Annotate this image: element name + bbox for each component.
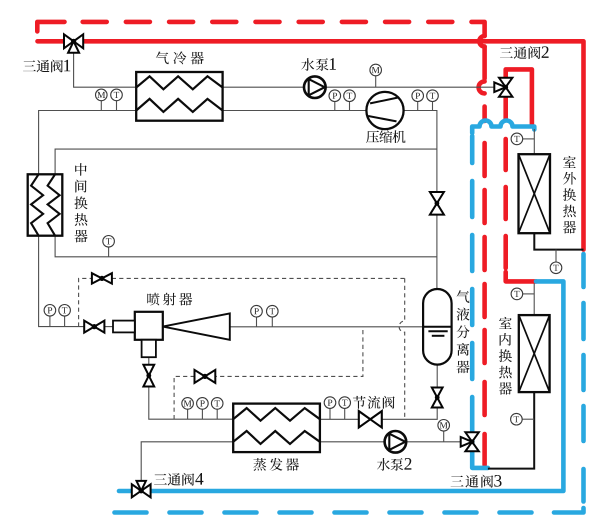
- wire: blue from red junction right of indoor HX, down right side, bottom return: [151, 281, 564, 491]
- sensor T motive line: [59, 305, 71, 317]
- wire: dashed liquid bypass evaporator inlet to ejector outlet: [174, 327, 363, 419]
- sensor M water line: [370, 64, 382, 76]
- wire: red from three-way valve 2 bottom: [503, 94, 508, 120]
- label 气液分离器 vertical: [457, 290, 470, 373]
- wire: T stub on y=256.8 line: [108, 247, 110, 257]
- wire: blue dashed bottom y=512.5: [115, 510, 147, 515]
- sensor M before valve 3: [438, 420, 450, 432]
- water pump 1 水泵1: [304, 76, 326, 98]
- sensor T outdoor HX bottom: [550, 262, 562, 274]
- wire: red dashed hot-water supply top, with left hook: [37, 22, 64, 32]
- valve on dashed liquid bypass: [195, 370, 205, 383]
- sensor M evaporator inlet: [182, 398, 194, 410]
- ejector nozzle inlet: [113, 321, 135, 333]
- wire: P/T stubs throttle line: [329, 408, 331, 419]
- motive line valve before ejector nozzle: [84, 321, 94, 333]
- sensor T compressor left: [344, 90, 356, 102]
- wire: red dashed vertical x=484.6: [482, 107, 487, 122]
- valve under ejector suction: [143, 365, 154, 376]
- wire: ejector suction leg down to evaporator inlet: [148, 357, 150, 365]
- wire: motive valve to nozzle: [104, 326, 113, 328]
- wire: indoor HX top pipe: [533, 283, 535, 315]
- wire: separator liquid out through valve, throttle line to evaporator: [436, 365, 438, 388]
- sensor P motive line: [44, 305, 56, 317]
- throttle valve 节流阀: [359, 411, 371, 427]
- wire: T stub indoor HX bottom: [522, 418, 534, 420]
- valve on compressor suction riser: [430, 192, 444, 203]
- sensor P throttle line: [324, 397, 336, 409]
- wire: intermediate HX bottom line y=256.8: [55, 236, 437, 257]
- wire: red dashed corner top-right, hops over red solid and water lines: [472, 22, 485, 36]
- sensor T intermediate HX line: [103, 236, 115, 248]
- wire: blue solid through three-way valve 3 to corner: [472, 397, 488, 468]
- wire: ejector diffuser outlet to separator: [230, 326, 424, 328]
- three-way valve 2 三通阀2: [499, 78, 512, 88]
- label 三通阀3: [451, 475, 502, 488]
- label 三通阀4: [154, 473, 203, 486]
- intermediate heat exchanger 中间换热器 box: [28, 174, 63, 235]
- sensor T indoor HX bottom: [511, 413, 523, 425]
- label 气冷器: [156, 51, 204, 64]
- label 蒸发器: [253, 458, 299, 471]
- gas cooler 气冷器 heat exchanger box: [136, 72, 222, 121]
- sensor T compressor right: [427, 90, 439, 102]
- wire: intermediate HX top line y=149.1: [55, 149, 437, 174]
- indoor heat exchanger 室内换热器 box with X: [519, 315, 550, 392]
- label 水泵1: [301, 58, 336, 71]
- label 中间换热器 vertical: [74, 163, 87, 242]
- wire: blue dashed bottom return corner: [554, 508, 584, 513]
- ejector suction inlet: [142, 340, 156, 357]
- wire: M/T sensor stubs gas cooler: [100, 101, 102, 111]
- valve under separator: [432, 388, 443, 398]
- sensor M gas cooler: [96, 89, 108, 101]
- label 压缩机: [366, 130, 405, 143]
- wire: indoor HX bottom pipe to blue corner: [488, 392, 534, 469]
- wire: M sensor stub on water line: [375, 76, 377, 88]
- ejector 喷射器 body: [135, 312, 163, 340]
- wire: T stub outdoor HX top: [523, 138, 535, 140]
- wire: P/T stubs compressor right: [417, 101, 419, 110]
- three-way valve 3 三通阀3: [465, 432, 478, 442]
- label 三通阀1: [23, 60, 70, 73]
- sensor P compressor left: [329, 90, 341, 102]
- label 室内换热器 vertical: [499, 317, 512, 395]
- wire: M stub before valve 3: [443, 431, 445, 442]
- label 节流阀: [353, 396, 395, 409]
- sensor T outdoor HX top: [511, 133, 523, 145]
- wire: outdoor HX top pipe: [533, 129, 535, 154]
- wire: evaporator water line to three-way valve 4: [141, 442, 233, 481]
- gas-liquid separator 气液分离器 vessel: [423, 289, 452, 365]
- label 三通阀2: [500, 46, 549, 59]
- outdoor heat exchanger 室外换热器 box with X: [519, 154, 551, 233]
- wire: P/T stubs ejector outlet: [256, 317, 258, 327]
- three-way valve 1 三通阀1: [64, 34, 74, 48]
- wire: T stub outdoor HX bottom: [555, 250, 557, 263]
- wire: outdoor HX bottom pipe to right edge: [534, 233, 583, 249]
- sensor T gas cooler: [111, 89, 123, 101]
- wire: compressor suction elbow from separator riser: [404, 111, 437, 290]
- evaporator 蒸发器 heat exchanger box: [233, 404, 320, 453]
- wire: T stub indoor HX top: [523, 293, 535, 295]
- sensor T ejector outlet: [267, 305, 279, 317]
- wire: blue stub left of three-way valve 4: [119, 489, 132, 494]
- sensor P compressor right: [412, 90, 424, 102]
- label 室外换热器 vertical: [563, 156, 576, 234]
- label 喷射器: [147, 293, 192, 306]
- wire: blue dashed right edge x=583.5: [581, 254, 586, 287]
- wire: red from three-way valve 2 top over to outdoor HX top: [506, 69, 532, 124]
- wire: red dashed vertical x=505.7 down to indoor HX elbow: [503, 139, 508, 170]
- wire: valve1 bottom to gas cooler water-in y=87.2: [74, 54, 137, 88]
- wire: blue wavy line hopping over red verticals to outdoor HX top: [472, 121, 534, 134]
- sensor P ejector outlet: [251, 305, 263, 317]
- label 水泵2: [377, 458, 411, 471]
- wire: P/T stubs compressor left: [334, 101, 336, 110]
- three-way valve 4 三通阀4: [132, 484, 141, 497]
- wire: red solid hot-water supply y=41.3 and right edge down to junction: [38, 41, 584, 249]
- wire: gas cooler refrigerant-out left to intermediate HX: [39, 111, 137, 175]
- wire: evaporator water out through pump2 to three-way valve 3: [320, 441, 461, 443]
- valve on dashed gas bypass: [92, 273, 102, 283]
- compressor 压缩机: [366, 92, 403, 129]
- wire: gas cooler to compressor discharge line: [223, 110, 367, 112]
- sensor P evaporator inlet: [197, 398, 209, 410]
- wire: P/T stubs motive line: [49, 316, 51, 327]
- wire: blue dashed vertical x=472.2: [470, 136, 475, 163]
- wire: gas cooler water-out through pump1 to three-way valve 2: [223, 86, 495, 88]
- wire: dashed gas bypass from motive line up over to throttle line: [79, 278, 405, 326]
- ejector diffuser cone: [163, 313, 230, 339]
- water pump 2 水泵2: [385, 431, 407, 453]
- sensor T evaporator inlet: [211, 398, 223, 410]
- wire: M/P/T stubs evaporator inlet: [187, 409, 189, 419]
- sensor T throttle line: [339, 397, 351, 409]
- wire: intermediate HX down-leg to ejector motive line: [39, 236, 85, 327]
- sensor T indoor HX top: [511, 288, 523, 300]
